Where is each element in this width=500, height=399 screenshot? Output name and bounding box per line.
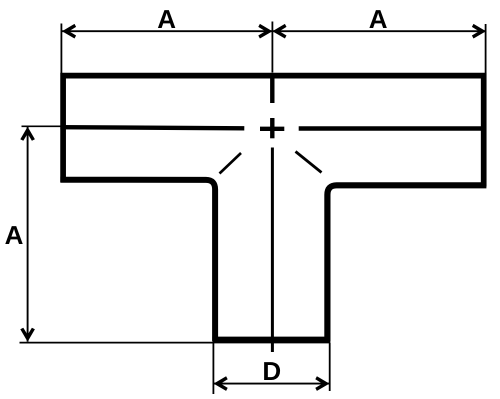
extension line, left A bottom (y=342.6) <box>20 342 214 344</box>
vertical centerline, dash below top edge <box>270 76 274 103</box>
dimension line, left A (vertical) <box>27 127 29 342</box>
vertical centerline, thin extension above body <box>271 22 273 73</box>
tee body outline: left arm bottom + leg left edge (fillet) <box>60 180 215 341</box>
dimension line, top (A + A) <box>62 30 486 32</box>
extension line, top right (x=485.6) <box>485 24 487 73</box>
diagonal centerline dash, left <box>220 153 242 174</box>
center mark cross, vertical bar <box>270 118 274 138</box>
arrowhead top-left, pointing left <box>62 24 76 39</box>
svg-text:A: A <box>369 4 388 34</box>
extension line, top left (x=61.4) <box>60 24 62 74</box>
arrowhead top-right, pointing right <box>472 24 486 39</box>
extension line, below leg right (x=329.7) <box>329 343 331 391</box>
center mark cross, horizontal bar <box>260 127 284 131</box>
arrowhead bottom-left, pointing left <box>214 376 228 391</box>
diagonal centerline dash, right <box>296 152 322 173</box>
svg-text:A: A <box>157 4 176 34</box>
extension line, left A top (y=126.3) <box>22 125 63 127</box>
dimension line, bottom D <box>214 383 330 385</box>
tee body outline: top run (left edge, top edge, right edge) <box>63 76 484 187</box>
arrowhead top-center, pointing left <box>272 24 286 39</box>
arrowhead bottom-right, pointing right <box>315 376 329 391</box>
arrowhead left-A top, pointing up <box>20 127 35 141</box>
extension line, below leg left (x=213.4) <box>212 343 214 394</box>
arrowhead top-center, pointing right <box>258 24 272 39</box>
svg-text:D: D <box>262 356 281 386</box>
svg-text:A: A <box>5 220 24 250</box>
tee body outline: leg right edge + right arm bottom (fillet) <box>327 185 486 341</box>
horizontal centerline, right segment <box>299 126 485 131</box>
arrowhead left-A bottom, pointing down <box>20 328 35 342</box>
tee body outline: leg bottom edge <box>212 337 330 344</box>
horizontal centerline, left segment <box>60 127 244 128</box>
vertical centerline, long segment through leg <box>271 148 274 353</box>
